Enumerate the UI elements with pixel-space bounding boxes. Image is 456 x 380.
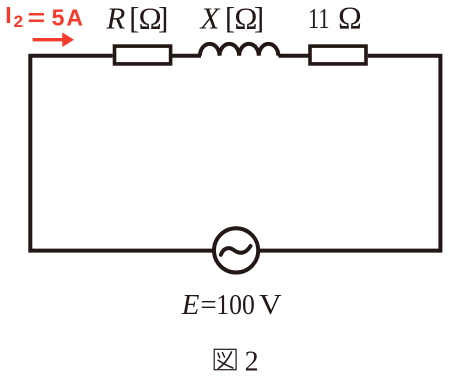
resistor 11ohm box bbox=[310, 46, 366, 64]
svg-text:X: X bbox=[199, 1, 221, 36]
svg-text:]: ] bbox=[254, 1, 264, 36]
current arrow bbox=[33, 32, 74, 47]
svg-text:R: R bbox=[105, 1, 125, 36]
zu tick right bbox=[222, 353, 224, 358]
svg-text:=: = bbox=[28, 5, 45, 31]
svg-text:I: I bbox=[5, 2, 11, 28]
inductor X coil bbox=[200, 44, 278, 56]
wire main loop left bottom right bbox=[30, 56, 440, 251]
svg-text:E: E bbox=[181, 289, 200, 321]
resistor R box bbox=[115, 46, 171, 64]
zu tick left bbox=[218, 353, 220, 357]
svg-text:100: 100 bbox=[216, 289, 255, 321]
wire R box to coil bbox=[170, 54, 201, 58]
svg-text:2: 2 bbox=[14, 12, 23, 31]
zu left-falling stroke bbox=[218, 352, 231, 369]
svg-text:V: V bbox=[259, 289, 282, 321]
svg-text:Ω: Ω bbox=[338, 0, 362, 36]
svg-text:2: 2 bbox=[245, 346, 259, 377]
svg-text:=: = bbox=[200, 289, 216, 321]
zu right-falling stroke bbox=[218, 360, 233, 368]
wire coil to 11ohm box bbox=[278, 54, 310, 58]
AC source tilde bbox=[221, 246, 251, 255]
svg-text:]: ] bbox=[158, 1, 168, 36]
svg-text:A: A bbox=[66, 5, 83, 31]
caption zu box bbox=[214, 349, 236, 369]
svg-text:5: 5 bbox=[52, 5, 65, 31]
svg-text:11: 11 bbox=[308, 3, 330, 35]
AC source circle bbox=[214, 228, 258, 272]
